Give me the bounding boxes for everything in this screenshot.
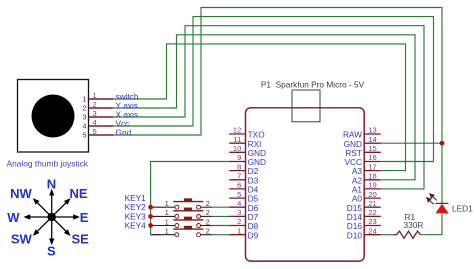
MCU left pin 5 D5 [229, 190, 258, 204]
svg-text:4: 4 [93, 118, 97, 127]
svg-text:330R: 330R [404, 220, 424, 230]
MCU right pin 14 GND [344, 135, 381, 149]
svg-text:1: 1 [93, 91, 97, 100]
svg-text:19: 19 [368, 181, 376, 190]
svg-text:D9: D9 [248, 230, 259, 240]
svg-text:3: 3 [82, 113, 86, 122]
compass center dot [48, 213, 56, 221]
MCU right pin 15 RST [345, 144, 380, 158]
svg-text:1: 1 [165, 199, 169, 208]
svg-text:22: 22 [368, 208, 376, 217]
MCU left pin 10 GND [229, 144, 266, 158]
MCU left pin 8 D2 [229, 162, 258, 176]
svg-text:1: 1 [165, 208, 169, 217]
wire Vcc net [113, 17, 434, 162]
LED1 triangle [435, 204, 448, 214]
svg-text:1: 1 [165, 217, 169, 226]
MCU left pin 11 RXI [229, 135, 261, 149]
svg-text:KEY4: KEY4 [125, 221, 147, 231]
MCU left pin 6 D4 [229, 181, 258, 195]
svg-text:5: 5 [237, 190, 241, 199]
switch KEY1 [151, 198, 212, 209]
svg-text:W: W [7, 210, 20, 225]
svg-text:2: 2 [206, 199, 210, 208]
svg-text:2: 2 [237, 217, 241, 226]
svg-text:14: 14 [368, 135, 376, 144]
svg-text:5: 5 [93, 127, 97, 136]
wire D10 to resistor [381, 234, 394, 236]
svg-text:10: 10 [233, 144, 241, 153]
MCU left pin 2 D8 [229, 217, 258, 231]
wire GND pin9 to key rail [151, 162, 230, 235]
svg-text:24: 24 [368, 226, 376, 235]
op MCU P1 body [246, 108, 365, 261]
svg-text:12: 12 [233, 126, 241, 135]
joystick pin 3 stub [89, 116, 114, 118]
MCU right pin 19 A1 [352, 181, 381, 195]
resistor R1 left lead [394, 234, 398, 236]
joystick box [18, 80, 89, 153]
svg-text:2: 2 [206, 208, 210, 217]
joystick pin 2 stub [89, 107, 114, 109]
svg-text:13: 13 [368, 126, 376, 135]
joystick pin 5 stub [89, 134, 114, 136]
MCU left pin 3 D7 [229, 208, 258, 222]
wire Y axis net [113, 35, 415, 180]
LED1 cathode bar [436, 202, 449, 204]
wire KEY1 to D6 [212, 206, 229, 208]
svg-text:7: 7 [237, 172, 241, 181]
switch KEY3 [151, 217, 212, 228]
wire KEY3 to D8 [212, 225, 229, 227]
svg-text:11: 11 [233, 135, 241, 144]
MCU right pin 20 A0 [352, 190, 381, 204]
junction dot Gnd/LED [440, 141, 445, 146]
svg-text:9: 9 [237, 153, 241, 162]
wire KEY2 to D7 [212, 215, 229, 217]
svg-text:3: 3 [237, 208, 241, 217]
svg-text:LED1: LED1 [452, 203, 473, 213]
compass labels [7, 177, 89, 259]
wire Gnd net [113, 8, 442, 144]
wire KEY4 to D9 [212, 234, 229, 236]
svg-text:NE: NE [70, 186, 88, 201]
MCU right pin 21 D15 [347, 199, 381, 213]
svg-text:20: 20 [368, 190, 376, 199]
svg-text:23: 23 [368, 217, 376, 226]
junction dot rail KEY3 [148, 223, 153, 228]
wire resistor to LED [421, 213, 443, 235]
svg-text:4: 4 [82, 122, 86, 131]
svg-text:6: 6 [237, 181, 241, 190]
MCU left pin 1 D9 [229, 226, 258, 240]
wire Gnd junction down to LED [441, 143, 443, 203]
MCU right pin 24 D10 [347, 226, 381, 240]
compass rose arrows [25, 191, 78, 244]
svg-text:21: 21 [368, 199, 376, 208]
svg-text:Gnd: Gnd [116, 127, 132, 137]
svg-text:5: 5 [82, 131, 86, 140]
MCU left pin 9 GND [229, 153, 266, 167]
joystick knob [32, 95, 75, 138]
svg-text:SW: SW [11, 231, 33, 246]
MCU notch [292, 90, 320, 122]
MCU left pin 4 D6 [229, 199, 258, 213]
svg-text:4: 4 [237, 199, 241, 208]
MCU left pin 12 TXO [229, 126, 265, 140]
svg-text:2: 2 [206, 217, 210, 226]
svg-text:1: 1 [237, 226, 241, 235]
wire switch net [113, 44, 406, 171]
svg-text:3: 3 [93, 109, 97, 118]
svg-text:1: 1 [82, 95, 86, 104]
svg-text:2: 2 [82, 104, 86, 113]
MCU right pin 18 A2 [352, 172, 381, 186]
svg-text:17: 17 [368, 162, 376, 171]
svg-text:SE: SE [72, 231, 90, 246]
svg-text:E: E [80, 210, 89, 225]
MCU left pin 7 D3 [229, 172, 258, 186]
MCU right pin 23 D16 [347, 217, 381, 231]
svg-text:NW: NW [10, 186, 32, 201]
LED1 emission arrows [427, 194, 437, 205]
joystick pin 1 stub [89, 98, 114, 100]
junction dot rail KEY1 [148, 205, 153, 210]
svg-text:D10: D10 [347, 230, 363, 240]
svg-text:8: 8 [237, 162, 241, 171]
svg-text:1: 1 [165, 227, 169, 236]
resistor R1 zigzag [397, 231, 421, 238]
svg-text:16: 16 [368, 153, 376, 162]
svg-text:18: 18 [368, 172, 376, 181]
svg-text:P1 Sparkfun Pro Micro - 5V: P1 Sparkfun Pro Micro - 5V [261, 80, 365, 90]
svg-text:2: 2 [93, 100, 97, 109]
svg-text:N: N [47, 177, 56, 192]
svg-text:15: 15 [368, 144, 376, 153]
switch KEY2 [151, 208, 212, 219]
joystick pin 4 stub [89, 125, 114, 127]
MCU right pin 22 D14 [347, 208, 381, 222]
svg-text:Analog thumb joystick: Analog thumb joystick [7, 159, 89, 169]
svg-text:2: 2 [206, 227, 210, 236]
switch KEY4 [151, 226, 212, 237]
wire X axis net [113, 26, 424, 189]
MCU right pin 16 VCC [344, 153, 380, 167]
junction dot rail KEY2 [148, 214, 153, 219]
MCU right pin 13 RAW [343, 126, 381, 140]
MCU right pin 17 A3 [352, 162, 381, 176]
svg-text:S: S [47, 243, 56, 258]
